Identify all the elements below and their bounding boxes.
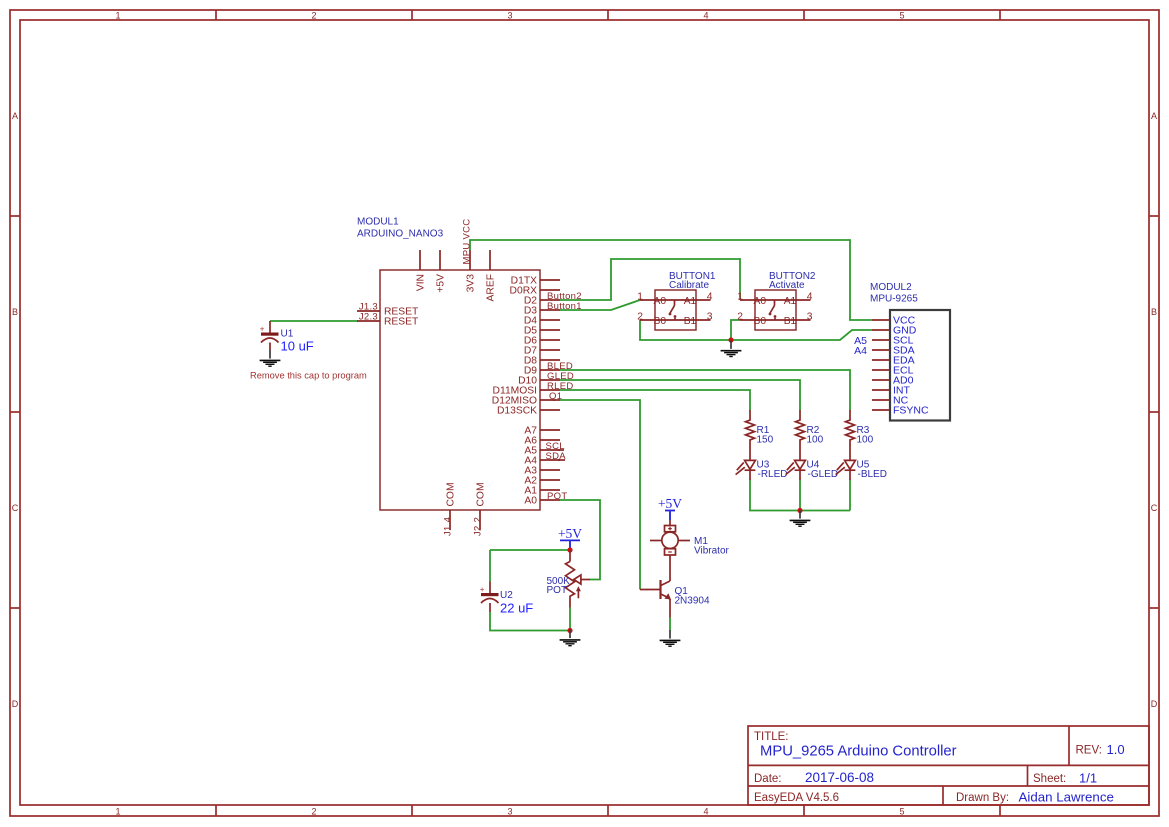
svg-text:D: D (12, 699, 19, 709)
MODUL1 left pin names (384, 307, 419, 328)
svg-text:4: 4 (707, 292, 713, 303)
svg-text:AREF: AREF (485, 274, 496, 301)
net label Q1 (549, 391, 562, 402)
svg-text:J1.4: J1.4 (443, 517, 454, 536)
svg-text:Q1: Q1 (549, 391, 562, 402)
ruler letters left (12, 111, 19, 709)
svg-text:ARDUINO_NANO3: ARDUINO_NANO3 (357, 229, 444, 240)
svg-text:1: 1 (737, 292, 743, 303)
junction dot pot top (567, 547, 572, 552)
svg-text:A1: A1 (684, 296, 697, 307)
wire BUTTON2 pin2 to rail (731, 320, 740, 340)
wire 3V3 to MPU VCC (470, 240, 872, 320)
wire pot bottom to gnd rail (569, 608, 571, 631)
svg-text:+5V: +5V (435, 274, 446, 293)
net label SCL (546, 441, 565, 452)
wire D2 to BUTTON2 pin1 (560, 259, 740, 300)
transistor Q1 (640, 580, 671, 618)
svg-text:U2: U2 (500, 590, 513, 601)
BUTTON2 pin names (754, 296, 797, 327)
svg-text:-GLED: -GLED (808, 469, 839, 480)
junction dot pot bottom (567, 628, 572, 633)
svg-text:2N3904: 2N3904 (675, 596, 710, 607)
motor M1 (650, 520, 690, 581)
power flag +5V motor (658, 496, 682, 520)
svg-text:3: 3 (507, 10, 512, 20)
svg-text:4: 4 (703, 10, 708, 20)
ruler numbers bottom (115, 806, 904, 816)
svg-text:+: + (260, 324, 265, 333)
svg-text:Sheet:: Sheet: (1033, 773, 1066, 785)
junction dot buttons ground (728, 337, 733, 342)
svg-text:A0: A0 (654, 296, 667, 307)
svg-text:Date:: Date: (754, 773, 782, 785)
svg-text:100: 100 (857, 435, 874, 446)
MODUL1 bottom pins COM COM (450, 510, 480, 530)
svg-text:C: C (12, 503, 19, 513)
svg-text:POT: POT (547, 585, 568, 596)
resistor R1 (746, 410, 755, 460)
svg-text:B: B (12, 307, 18, 317)
svg-text:B0: B0 (654, 316, 667, 327)
svg-text:J2.3: J2.3 (359, 311, 378, 322)
svg-text:2: 2 (637, 312, 643, 323)
svg-text:MODUL2: MODUL2 (870, 282, 912, 293)
LED U3 (736, 460, 756, 480)
ground for buttons (721, 340, 742, 356)
MODUL1 right pins D1TX..D13SCK A7..A0 (540, 280, 560, 500)
svg-text:3: 3 (707, 312, 713, 323)
net label RLED (547, 381, 574, 392)
svg-text:3: 3 (507, 806, 512, 816)
svg-text:-BLED: -BLED (858, 469, 887, 480)
svg-text:COM: COM (475, 482, 486, 506)
capacitor U1 (260, 321, 279, 350)
svg-text:1: 1 (115, 10, 120, 20)
wire RLED D11 to R1 (560, 390, 750, 411)
svg-text:A4: A4 (854, 345, 867, 357)
module MODUL2 body (890, 310, 950, 421)
resistor R3 (846, 410, 855, 460)
svg-text:TITLE:: TITLE: (754, 731, 789, 743)
svg-text:A: A (1151, 111, 1157, 121)
capacitor U2 (480, 582, 499, 613)
BUTTON1 pin names (654, 296, 697, 327)
svg-text:MODUL1: MODUL1 (357, 217, 399, 228)
svg-text:B: B (1151, 307, 1157, 317)
ground for LEDs (790, 510, 811, 526)
ruler ticks bottom (216, 805, 1000, 816)
resistor R2 (796, 410, 805, 460)
ruler letters right (1151, 111, 1158, 709)
net label POT (547, 491, 567, 502)
net label Button1 (547, 301, 582, 312)
net label SDA (546, 451, 567, 462)
svg-text:5: 5 (899, 10, 904, 20)
svg-text:1/1: 1/1 (1079, 771, 1097, 786)
svg-text:10 uF: 10 uF (281, 339, 314, 354)
wire BUTTON1 pin2 to MPU GND rail (640, 320, 872, 340)
pushbutton BUTTON1 (640, 290, 711, 330)
svg-text:22 uF: 22 uF (500, 601, 533, 616)
svg-text:2: 2 (737, 312, 743, 323)
wire GLED D10 to R2 (560, 380, 800, 411)
svg-text:1: 1 (115, 806, 120, 816)
svg-text:4: 4 (807, 292, 813, 303)
ground for Q1 (660, 630, 681, 646)
svg-text:5: 5 (899, 806, 904, 816)
svg-text:Calibrate: Calibrate (669, 280, 709, 291)
wire D3 to BUTTON1 pin1 (560, 300, 640, 310)
svg-text:2: 2 (311, 806, 316, 816)
svg-text:Activate: Activate (769, 280, 805, 291)
svg-text:C: C (1151, 503, 1158, 513)
svg-text:B1: B1 (784, 316, 797, 327)
svg-text:COM: COM (445, 482, 456, 506)
svg-text:EasyEDA V4.5.6: EasyEDA V4.5.6 (754, 792, 839, 804)
svg-text:+: + (480, 585, 485, 594)
svg-text:100: 100 (807, 435, 824, 446)
BUTTON2 pin numbers (737, 292, 812, 323)
svg-text:A1: A1 (784, 296, 797, 307)
svg-text:B1: B1 (684, 316, 697, 327)
wire BLED D9 to R3 (560, 370, 850, 411)
ruler ticks right (1149, 216, 1159, 608)
wire +5V rail to pot top (490, 549, 570, 551)
svg-text:MPU-9265: MPU-9265 (870, 294, 918, 305)
MODUL2 pin names (893, 315, 929, 417)
MODUL1 top pins VIN +5V 3V3 AREF (420, 250, 490, 270)
svg-text:VIN: VIN (415, 274, 426, 291)
svg-text:B0: B0 (754, 316, 767, 327)
svg-text:2017-06-08: 2017-06-08 (805, 770, 874, 785)
svg-text:4: 4 (703, 806, 708, 816)
svg-text:Button1: Button1 (547, 301, 582, 312)
svg-text:3V3: 3V3 (465, 274, 476, 293)
svg-text:J2.2: J2.2 (473, 517, 484, 536)
MODUL1 top pin names (415, 274, 496, 302)
wire down to U2 (489, 550, 491, 582)
svg-text:FSYNC: FSYNC (893, 405, 929, 417)
MODUL1 left pins RESET (357, 311, 380, 321)
svg-text:3: 3 (807, 312, 813, 323)
svg-text:Drawn By:: Drawn By: (956, 792, 1009, 804)
LED U5 (836, 460, 856, 480)
wire U2 bottom to gnd rail (490, 612, 570, 631)
wire LED U5 bottom (849, 480, 851, 511)
MODUL1 right pin names (492, 276, 537, 507)
LED U4 (786, 460, 806, 480)
svg-text:150: 150 (757, 435, 774, 446)
svg-text:D13SCK: D13SCK (497, 406, 537, 417)
net label Button2 (547, 291, 582, 302)
ruler ticks left (10, 216, 20, 608)
wire Q1 D12 to base (560, 400, 640, 590)
power flag +5V pot (558, 526, 582, 550)
svg-text:D: D (1151, 699, 1158, 709)
wire LED U3 bottom to led rail (750, 480, 850, 511)
svg-text:Vibrator: Vibrator (694, 546, 730, 557)
svg-text:Aidan Lawrence: Aidan Lawrence (1019, 790, 1114, 805)
wire LED U4 bottom (799, 480, 801, 511)
svg-text:1: 1 (637, 292, 643, 303)
potentiometer 500K POT (566, 550, 591, 608)
wire POT A0 to wiper (560, 500, 600, 580)
svg-text:POT: POT (547, 491, 567, 502)
ruler numbers top (115, 10, 904, 20)
module MODUL1 body (380, 270, 540, 510)
svg-text:MPU VCC: MPU VCC (462, 219, 473, 265)
svg-text:REV:: REV: (1076, 745, 1102, 757)
svg-text:Remove this cap to program: Remove this cap to program (250, 370, 367, 380)
junction dot LED rail (797, 508, 802, 513)
wire RESET cap to J2.3 (270, 320, 358, 322)
ground for pot (560, 630, 581, 646)
svg-text:A0: A0 (524, 496, 537, 507)
svg-text:2: 2 (311, 10, 316, 20)
MODUL1 bottom pin names (445, 482, 486, 506)
svg-text:-RLED: -RLED (758, 469, 788, 480)
MODUL2 pins (872, 320, 890, 410)
svg-text:+5V: +5V (558, 526, 582, 541)
svg-text:MPU_9265 Arduino Controller: MPU_9265 Arduino Controller (760, 744, 957, 760)
title block (748, 726, 1149, 805)
ruler ticks top (216, 10, 1000, 20)
svg-text:A0: A0 (754, 296, 767, 307)
net label GLED (547, 371, 574, 382)
net label BLED (547, 361, 573, 372)
pushbutton BUTTON2 (740, 290, 811, 330)
svg-text:A: A (12, 111, 18, 121)
svg-text:+5V: +5V (658, 496, 682, 511)
wire Q1 emitter to ground (669, 618, 671, 631)
svg-text:1.0: 1.0 (1107, 742, 1125, 757)
ground for U1 (260, 350, 281, 366)
svg-text:RESET: RESET (384, 317, 419, 328)
BUTTON1 pin numbers (637, 292, 712, 323)
